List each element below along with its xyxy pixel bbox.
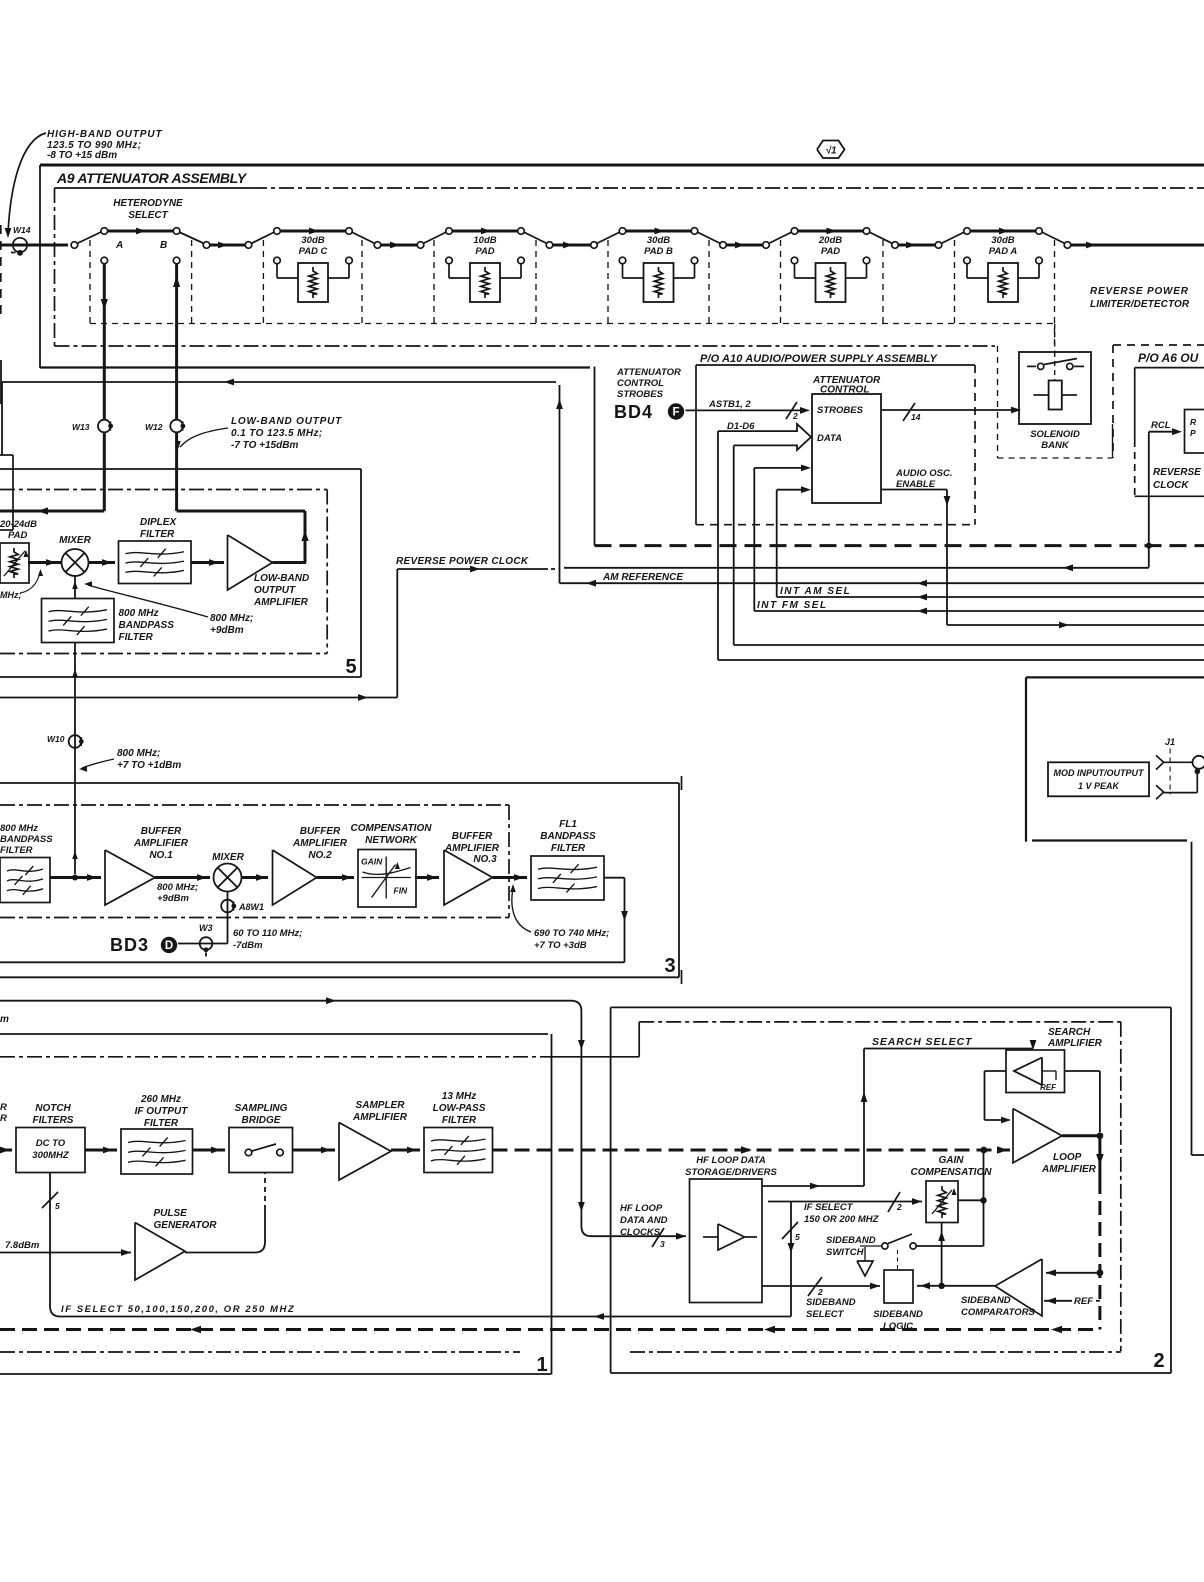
svg-text:BRIDGE: BRIDGE [242, 1115, 281, 1126]
label 800MHz +7 to +1dBm [79, 748, 181, 772]
svg-text:PAD: PAD [8, 530, 27, 541]
svg-text:FILTER: FILTER [144, 1118, 179, 1129]
connector W13 label [72, 420, 113, 433]
svg-text:AMPLIFIER: AMPLIFIER [133, 838, 189, 849]
svg-text:DATA AND: DATA AND [620, 1215, 668, 1226]
wire bpf to mixer [72, 576, 78, 599]
attenuator pad 20dB PAD [763, 228, 899, 302]
svg-text:PULSE: PULSE [154, 1208, 188, 1219]
P/O A6 output assembly box [1113, 345, 1204, 496]
svg-text:AMPLIFIER: AMPLIFIER [292, 838, 348, 849]
svg-text:LOW-PASS: LOW-PASS [433, 1103, 486, 1114]
svg-text:R: R [0, 1113, 7, 1124]
svg-text:NO.1: NO.1 [149, 850, 173, 861]
A9 inner dash-dot boundary [55, 188, 1204, 346]
svg-text:2: 2 [817, 1287, 823, 1297]
svg-text:STORAGE/DRIVERS: STORAGE/DRIVERS [685, 1167, 777, 1178]
sections 1-2 inner dash-dot boundary [0, 1022, 1121, 1352]
wire int am sel input [777, 486, 811, 597]
svg-text:FL1: FL1 [559, 819, 577, 830]
svg-text:BD3: BD3 [110, 935, 149, 955]
svg-text:CLOCKS: CLOCKS [620, 1227, 661, 1238]
svg-text:SELECT: SELECT [128, 210, 168, 221]
svg-text:+7 TO +3dB: +7 TO +3dB [534, 940, 587, 951]
solenoid bank dashed enclosure [998, 346, 1113, 458]
label low-band output amplifier [253, 573, 309, 608]
svg-text:J1: J1 [1165, 737, 1175, 747]
svg-text:+9dBm: +9dBm [210, 625, 244, 636]
svg-text:GAIN: GAIN [939, 1155, 965, 1166]
svg-text:HETERODYNE: HETERODYNE [113, 198, 183, 209]
svg-text:NO.3: NO.3 [473, 854, 497, 865]
svg-text:COMPARATORS: COMPARATORS [961, 1307, 1036, 1318]
svg-text:3: 3 [660, 1239, 665, 1249]
mixer section 5 [28, 535, 92, 576]
section 5 outer box [0, 469, 361, 677]
attenuator pad 30dB PAD A [935, 228, 1071, 302]
svg-text:W10: W10 [47, 734, 65, 744]
connector W14 [0, 225, 68, 320]
svg-text:AUDIO OSC.: AUDIO OSC. [895, 468, 952, 479]
sampling bridge [193, 1103, 293, 1173]
label high-band output [5, 129, 163, 238]
svg-text:F: F [672, 407, 679, 419]
svg-text:800 MHz: 800 MHz [119, 608, 159, 619]
svg-text:BANDPASS: BANDPASS [540, 831, 596, 842]
svg-text:DATA: DATA [817, 433, 842, 444]
diplex filter [89, 517, 192, 584]
reverse power block at right edge [1185, 410, 1204, 454]
svg-text:14: 14 [911, 412, 921, 422]
svg-text:AMPLIFIER: AMPLIFIER [352, 1112, 408, 1123]
svg-text:STROBES: STROBES [617, 389, 664, 400]
svg-text:R: R [0, 1102, 7, 1113]
label 60 to 110 MHz -7dBm [233, 928, 302, 951]
wire strobes /14 to solenoid bank [881, 403, 1021, 422]
svg-text:10dB: 10dB [473, 235, 496, 246]
svg-text:AMPLIFIER: AMPLIFIER [1047, 1038, 1103, 1049]
svg-text:ATTENUATOR: ATTENUATOR [616, 367, 681, 378]
svg-text:PAD: PAD [475, 246, 494, 257]
attenuator control block [812, 375, 881, 503]
label reverse power limiter/detector [1090, 286, 1190, 310]
section 5 inner dash-dot box [0, 490, 327, 654]
wire FL1 output loop [0, 878, 628, 963]
svg-text:STROBES: STROBES [817, 405, 864, 416]
label attenuator control strobes [616, 367, 681, 400]
svg-text:2: 2 [792, 411, 798, 421]
13 MHz low-pass filter [391, 1091, 493, 1173]
svg-text:INT AM SEL: INT AM SEL [780, 586, 851, 597]
heavy dashed IF bus to loop amplifier [493, 1146, 1011, 1154]
svg-text:3: 3 [664, 955, 675, 977]
data bus lines to right edge [718, 645, 1204, 660]
svg-text:SAMPLING: SAMPLING [235, 1103, 288, 1114]
svg-text:PAD B: PAD B [644, 246, 673, 257]
svg-text:BANDPASS: BANDPASS [119, 620, 175, 631]
svg-text:P/O A10 AUDIO/POWER SUPPLY ASS: P/O A10 AUDIO/POWER SUPPLY ASSEMBLY [700, 353, 939, 365]
svg-text:5: 5 [345, 656, 356, 678]
mixer section 3 [155, 852, 245, 892]
loop amplifier output feedback [1062, 1132, 1104, 1329]
svg-text:OUTPUT: OUTPUT [254, 585, 296, 596]
ground symbol [857, 1247, 873, 1276]
svg-text:IF SELECT 50,100,150,200, OR 2: IF SELECT 50,100,150,200, OR 250 MHZ [61, 1304, 295, 1315]
section 2 outer box [611, 1007, 1171, 1373]
wire W12 to low-band amp output [177, 432, 309, 563]
svg-text:REF: REF [1040, 1083, 1057, 1092]
svg-text:D: D [165, 940, 173, 952]
svg-text:REVERSE POWER CLOCK: REVERSE POWER CLOCK [396, 556, 529, 567]
svg-text:300MHZ: 300MHZ [32, 1150, 70, 1161]
label 690 to 740MHz [510, 884, 609, 951]
low-band output amplifier [191, 535, 273, 590]
wire W12 rise to contact B [173, 264, 180, 420]
main line segments between pads [210, 242, 1204, 249]
svg-text:0.1 TO 123.5 MHz;: 0.1 TO 123.5 MHz; [231, 428, 323, 439]
svg-text:CONTROL: CONTROL [820, 385, 869, 396]
svg-text:800 MHz: 800 MHz [0, 823, 38, 834]
heavy dashed return bus [0, 1326, 1100, 1334]
svg-text:260 MHz: 260 MHz [140, 1094, 181, 1105]
wire bpf to buffer amp no1 [50, 874, 101, 881]
svg-text:690 TO 740 MHz;: 690 TO 740 MHz; [534, 928, 609, 939]
svg-text:FILTER: FILTER [119, 632, 154, 643]
wire REF input [1044, 1296, 1100, 1307]
svg-text:PAD: PAD [821, 246, 840, 257]
section 1 outer box [0, 1034, 552, 1374]
MOD input/output assembly box [1026, 677, 1204, 1155]
svg-text:FILTER: FILTER [0, 845, 33, 856]
svg-text:A9 ATTENUATOR ASSEMBLY: A9 ATTENUATOR ASSEMBLY [56, 170, 248, 186]
svg-text:CLOCK: CLOCK [1153, 480, 1189, 491]
FL1 bandpass filter [493, 819, 605, 900]
svg-text:HIGH-BAND OUTPUT: HIGH-BAND OUTPUT [47, 129, 163, 140]
connector A8W1 [221, 892, 264, 944]
svg-text:SOLENOID: SOLENOID [1030, 429, 1080, 440]
search select wire [762, 1036, 1036, 1189]
wire search amp ref to output node [1065, 1071, 1100, 1132]
connector W12 label [145, 420, 185, 433]
svg-text:SIDEBAND: SIDEBAND [873, 1309, 923, 1320]
svg-text:REF: REF [1074, 1296, 1093, 1307]
svg-text:SEARCH: SEARCH [1048, 1027, 1091, 1038]
svg-text:+7 TO +1dBm: +7 TO +1dBm [117, 760, 181, 771]
attenuator pad 30dB PAD B [591, 228, 727, 302]
svg-text:-7dBm: -7dBm [233, 940, 263, 951]
svg-text:BANK: BANK [1041, 440, 1070, 451]
svg-text:FIN: FIN [394, 886, 409, 896]
svg-text:-8 TO +15 dBm: -8 TO +15 dBm [47, 150, 117, 161]
solenoid bank [1019, 324, 1091, 452]
svg-text:5: 5 [55, 1201, 60, 1211]
svg-text:IF OUTPUT: IF OUTPUT [135, 1106, 189, 1117]
svg-text:BUFFER: BUFFER [300, 826, 341, 837]
flag note 1 [817, 141, 845, 159]
800 MHz bandpass filter section 5 [42, 599, 175, 644]
wire reverse power clock [0, 556, 1149, 701]
label 800 MHz +9dBm [84, 581, 253, 636]
wire comparators to logic [917, 1223, 995, 1290]
wire int fm sel input [754, 465, 811, 612]
svg-text:W13: W13 [72, 422, 90, 432]
svg-text:DIPLEX: DIPLEX [140, 517, 177, 528]
svg-text:R: R [1190, 417, 1197, 427]
svg-text:+9dBm: +9dBm [157, 893, 189, 904]
svg-text:IF SELECT: IF SELECT [804, 1202, 854, 1213]
svg-text:A8W1: A8W1 [238, 902, 264, 912]
section 3 inner dash-dot box [0, 805, 509, 918]
wire comparators top input [1046, 1269, 1100, 1276]
sampler amplifier [293, 1100, 408, 1180]
svg-text:B: B [160, 240, 167, 251]
wire W3 from BD3D [178, 923, 228, 957]
section 3 corner brackets [681, 776, 683, 984]
svg-text:BD4: BD4 [614, 402, 653, 422]
wire AM reference [2, 379, 1204, 587]
svg-text:REVERSE: REVERSE [1153, 467, 1201, 478]
left edge vertical segment [0, 360, 2, 404]
svg-text:2: 2 [896, 1202, 902, 1212]
svg-text:INT FM SEL: INT FM SEL [757, 600, 828, 611]
svg-text:SIDEBAND: SIDEBAND [961, 1295, 1011, 1306]
pulse generator [0, 1173, 265, 1281]
svg-text:m: m [0, 1014, 9, 1025]
800 MHz bandpass filter section 3 [0, 823, 53, 903]
svg-text:FILTER: FILTER [140, 529, 175, 540]
svg-text:30dB: 30dB [647, 235, 670, 246]
svg-text:W14: W14 [13, 225, 31, 235]
svg-text:DC TO: DC TO [36, 1138, 66, 1149]
svg-text:LOOP: LOOP [1053, 1152, 1082, 1163]
svg-text:800 MHz;: 800 MHz; [210, 613, 253, 624]
svg-text:SIDEBAND: SIDEBAND [806, 1297, 856, 1308]
sideband comparators [961, 1259, 1042, 1318]
svg-text:CONTROL: CONTROL [617, 378, 664, 389]
svg-text:MIXER: MIXER [59, 535, 91, 546]
svg-text:PAD A: PAD A [989, 246, 1018, 257]
svg-text:FILTERS: FILTERS [33, 1115, 74, 1126]
svg-text:30dB: 30dB [991, 235, 1014, 246]
svg-text:30dB: 30dB [301, 235, 324, 246]
section 3 outer box [0, 783, 679, 977]
wire gain comp output node [917, 1150, 987, 1246]
260 MHz IF output filter [85, 1094, 193, 1174]
svg-text:MHz;: MHz; [0, 590, 22, 600]
sideband logic [873, 1270, 923, 1332]
svg-text:BUFFER: BUFFER [452, 831, 493, 842]
notch filters block [0, 1103, 85, 1173]
svg-text:LIMITER/DETECTOR: LIMITER/DETECTOR [1090, 299, 1190, 310]
audio osc enable wire [881, 468, 1204, 628]
svg-text:ASTB1, 2: ASTB1, 2 [708, 399, 751, 410]
svg-text:LOGIC: LOGIC [883, 1321, 913, 1332]
svg-text:1 V PEAK: 1 V PEAK [1078, 781, 1121, 791]
svg-text:RCL: RCL [1151, 420, 1171, 431]
svg-text:ENABLE: ENABLE [896, 479, 936, 490]
wire RCL [1146, 420, 1182, 568]
svg-text:AMPLIFIER: AMPLIFIER [253, 597, 309, 608]
partial box at left edge above section 5 [0, 455, 13, 530]
svg-text:REVERSE POWER: REVERSE POWER [1090, 286, 1189, 297]
svg-text:AMPLIFIER: AMPLIFIER [1041, 1164, 1097, 1175]
wire search amp to loop amp [985, 1071, 1012, 1123]
off-sheet ref BD4F [614, 402, 684, 422]
svg-text:5: 5 [795, 1232, 800, 1242]
label reverse clock [1153, 467, 1201, 491]
wire IF select 5-bit [42, 1173, 791, 1320]
svg-text:-7 TO +15dBm: -7 TO +15dBm [231, 440, 298, 451]
MOD input/output label box [1048, 762, 1149, 796]
svg-text:MIXER: MIXER [212, 852, 244, 863]
svg-text:NOTCH: NOTCH [35, 1103, 71, 1114]
data bus D1-D6 [718, 421, 811, 660]
svg-text:MOD INPUT/OUTPUT: MOD INPUT/OUTPUT [1054, 768, 1145, 778]
wire sideband select [762, 1277, 880, 1320]
svg-text:FILTER: FILTER [442, 1115, 477, 1126]
wire /5 IF select drop [782, 1202, 800, 1317]
svg-text:P: P [1190, 428, 1196, 438]
svg-text:SEARCH SELECT: SEARCH SELECT [872, 1036, 973, 1048]
partial labels at left edge section 1 [0, 1102, 7, 1124]
svg-text:SIDEBAND: SIDEBAND [826, 1235, 876, 1246]
svg-text:SAMPLER: SAMPLER [356, 1100, 406, 1111]
svg-text:NO.2: NO.2 [308, 850, 332, 861]
wire W13 to left edge [0, 432, 104, 515]
svg-text:SWITCH: SWITCH [826, 1247, 865, 1258]
wire W13 drop from contact A [101, 264, 108, 420]
svg-text:2: 2 [1153, 1350, 1164, 1372]
svg-text:NETWORK: NETWORK [365, 835, 417, 846]
pad 20-24dB at left edge [0, 519, 43, 600]
connector J1 [1156, 737, 1204, 799]
svg-text:W12: W12 [145, 422, 163, 432]
svg-text:√1: √1 [825, 146, 836, 157]
svg-text:GAIN: GAIN [361, 857, 383, 867]
svg-text:7.8dBm: 7.8dBm [5, 1240, 40, 1251]
label low-band output [175, 416, 342, 451]
svg-text:LOW-BAND OUTPUT: LOW-BAND OUTPUT [231, 416, 342, 427]
svg-text:LOW-BAND: LOW-BAND [254, 573, 309, 584]
attenuator pads dashed enclosure [90, 240, 1055, 345]
connector W10 [47, 734, 84, 748]
wire INT FM SEL [754, 600, 1204, 614]
HF loop data storage/drivers [685, 1155, 777, 1303]
svg-text:150 OR 200 MHZ: 150 OR 200 MHZ [804, 1214, 880, 1225]
svg-text:20dB: 20dB [818, 235, 842, 246]
svg-text:HF LOOP DATA: HF LOOP DATA [696, 1155, 766, 1166]
svg-text:SELECT: SELECT [806, 1309, 845, 1320]
svg-text:HF LOOP: HF LOOP [620, 1203, 663, 1214]
svg-text:800 MHz;: 800 MHz; [157, 882, 198, 893]
buffer amplifier no1 [105, 826, 189, 905]
wire ASTB1,2 strobes [686, 399, 811, 421]
P/O A10 audio/power supply assembly box [696, 353, 975, 525]
search amplifier [1006, 1027, 1103, 1093]
wire amp output to W12 riser [273, 561, 307, 564]
svg-text:COMPENSATION: COMPENSATION [351, 823, 433, 834]
svg-text:20-24dB: 20-24dB [0, 519, 37, 530]
svg-text:AMPLIFIER: AMPLIFIER [444, 843, 500, 854]
svg-text:BANDPASS: BANDPASS [0, 834, 53, 845]
svg-text:FILTER: FILTER [551, 843, 586, 854]
sideband switch [826, 1234, 916, 1270]
label 800MHz +9dBm out [157, 882, 198, 904]
attenuator pad 10dB PAD [417, 228, 553, 302]
svg-text:13 MHz: 13 MHz [442, 1091, 476, 1102]
svg-text:AM REFERENCE: AM REFERENCE [602, 572, 683, 583]
gain compensation [768, 1155, 992, 1225]
loop amplifier [1013, 1109, 1097, 1175]
buffer amplifier no2 [242, 826, 348, 905]
svg-text:1: 1 [536, 1354, 547, 1376]
off-sheet ref BD3D [110, 935, 177, 955]
svg-text:W3: W3 [199, 923, 213, 933]
attenuator pad 30dB PAD C [245, 228, 381, 302]
compensation network [317, 823, 433, 907]
svg-text:800 MHz;: 800 MHz; [117, 748, 160, 759]
buffer amplifier no3 [415, 831, 500, 905]
wire INT AM SEL [777, 586, 1204, 600]
wire W10 riser [72, 643, 78, 875]
svg-text:60 TO 110 MHz;: 60 TO 110 MHz; [233, 928, 302, 939]
wire hf loop data feed [0, 997, 686, 1249]
svg-text:GENERATOR: GENERATOR [154, 1220, 218, 1231]
heterodyne select switch [71, 198, 210, 264]
svg-text:P/O A6 OU: P/O A6 OU [1138, 351, 1199, 365]
A9 attenuator assembly outer box [40, 165, 1204, 546]
svg-text:A: A [115, 240, 123, 251]
svg-text:BUFFER: BUFFER [141, 826, 182, 837]
svg-text:PAD C: PAD C [299, 246, 328, 257]
svg-text:COMPENSATION: COMPENSATION [911, 1167, 993, 1178]
